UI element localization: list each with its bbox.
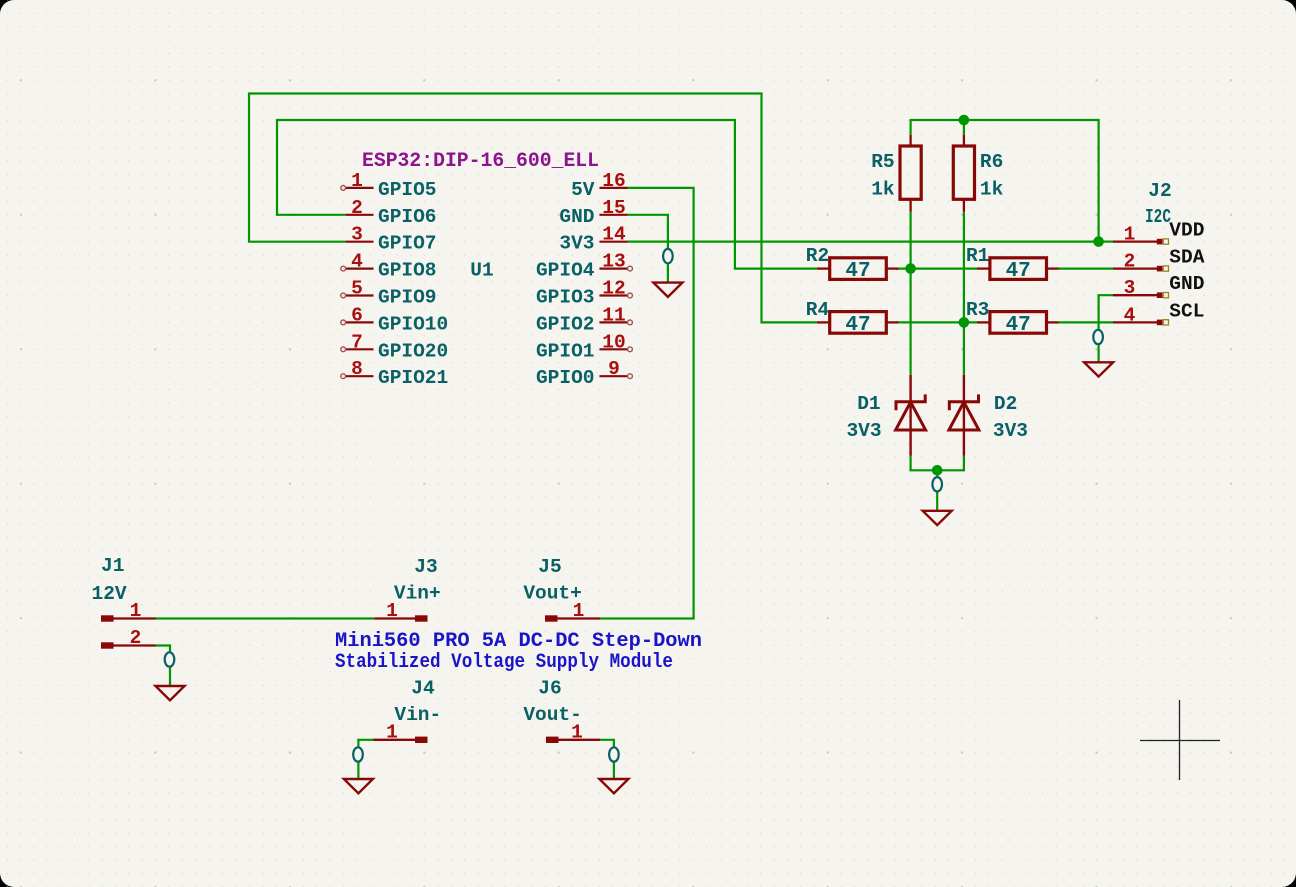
svg-text:4: 4 <box>1124 304 1136 326</box>
wire 3V3 (U1 pin 14) to J2 VDD - net VDD <box>628 241 1099 243</box>
wire J1 pin 1 to J3 Vin+ <box>156 617 375 619</box>
wire R4 to R3 - net SCL <box>896 321 977 323</box>
J2 pin 2 (SDA) <box>1113 251 1169 273</box>
junction R6 bottom / SCL <box>959 317 970 328</box>
U1 pin 1 (GPIO5) <box>341 170 437 201</box>
svg-text:J5: J5 <box>538 556 561 578</box>
ground symbol J6 net 0 <box>599 779 628 793</box>
svg-text:GND: GND <box>559 206 594 228</box>
connector J3 (Vin+) <box>374 556 440 622</box>
connector J4 (Vin-) <box>373 677 441 743</box>
svg-text:J1: J1 <box>101 555 124 577</box>
ground symbol U1 GND net 0 <box>653 283 682 297</box>
svg-text:4: 4 <box>351 251 363 273</box>
J6 pin 1 <box>546 721 600 743</box>
svg-text:GPIO7: GPIO7 <box>378 233 437 255</box>
U1 pin 4 (GPIO8) <box>341 251 437 282</box>
resistor R5 (1k) vertical <box>871 135 921 212</box>
svg-text:3V3: 3V3 <box>846 420 881 442</box>
U1 pin 13 (GPIO4) <box>536 251 632 282</box>
J1 pin 2 <box>101 627 156 649</box>
U1 pin 12 (GPIO3) <box>536 278 632 309</box>
connector J2 (I2C) <box>1113 180 1205 326</box>
wire GPIO7 (U1 pin 3) to R4 - net SCL <box>249 94 817 323</box>
svg-text:GPIO6: GPIO6 <box>378 206 437 228</box>
wire R5 bottom through SDA junction to D1 <box>909 212 911 375</box>
wire R2 to R1 - net SDA <box>896 268 977 270</box>
svg-text:J3: J3 <box>414 556 437 578</box>
svg-text:GPIO20: GPIO20 <box>378 340 448 362</box>
resistor R6 (1k) vertical <box>953 135 1003 212</box>
svg-text:47: 47 <box>1006 260 1031 283</box>
svg-text:3: 3 <box>1124 277 1136 299</box>
svg-text:SCL: SCL <box>1169 300 1204 322</box>
svg-text:3V3: 3V3 <box>993 420 1028 442</box>
svg-text:5: 5 <box>351 278 363 300</box>
svg-text:15: 15 <box>602 197 625 219</box>
J2 pin 3 (GND) <box>1113 277 1169 299</box>
wire R6 bottom through SCL junction to D2 <box>963 212 965 375</box>
J2 pin 4 (SCL) <box>1113 304 1169 326</box>
wire GPIO6 (U1 pin 2) to R2 - net SDA <box>277 120 817 269</box>
svg-text:1: 1 <box>573 600 585 622</box>
U1 pin 14 (3V3) <box>559 224 627 255</box>
wire VDD junction to J2 pin 1 <box>1099 241 1113 243</box>
wire D junction down to ground <box>936 470 938 511</box>
svg-text:1: 1 <box>386 600 398 622</box>
svg-text:13: 13 <box>602 251 625 273</box>
svg-text:1k: 1k <box>871 179 895 201</box>
wire J2 GND pin to ground <box>1099 295 1113 362</box>
ground symbol J1 net 0 <box>156 686 185 700</box>
wire R5/R6 tops to VDD <box>911 120 1099 242</box>
svg-text:9: 9 <box>608 358 620 380</box>
svg-text:3V3: 3V3 <box>559 233 594 255</box>
svg-text:GPIO9: GPIO9 <box>378 287 437 309</box>
junction D1/D2 ground net <box>932 465 943 476</box>
U1 pin 16 (5V) <box>571 170 627 201</box>
svg-text:6: 6 <box>351 304 363 326</box>
wire GND (U1 pin 15) to ground <box>628 215 668 283</box>
svg-text:R1: R1 <box>966 245 989 267</box>
svg-text:R3: R3 <box>966 299 989 321</box>
U1 pin 2 (GPIO6) <box>346 197 437 228</box>
svg-text:U1: U1 <box>470 260 493 282</box>
wire R1 to J2 SDA <box>1059 268 1114 270</box>
U1 pin 8 (GPIO21) <box>341 358 448 389</box>
svg-text:GPIO21: GPIO21 <box>378 367 448 389</box>
zener diode D2 (3V3) <box>949 375 1028 456</box>
svg-text:GPIO3: GPIO3 <box>536 287 595 309</box>
resistor R4 (47) horizontal <box>806 299 899 337</box>
svg-text:10: 10 <box>602 331 625 353</box>
junction R6 top / VDD wire <box>959 115 970 126</box>
svg-text:R5: R5 <box>871 151 894 173</box>
wire D1/D2 cathodes to ground net <box>911 456 964 471</box>
svg-text:5V: 5V <box>571 179 595 201</box>
wire J6 Vout- to ground <box>600 740 614 779</box>
svg-text:D1: D1 <box>857 393 880 415</box>
svg-text:R2: R2 <box>806 245 829 267</box>
cursor crosshair <box>1140 700 1220 780</box>
svg-text:8: 8 <box>351 358 363 380</box>
svg-text:GND: GND <box>1169 273 1204 295</box>
svg-text:Vin-: Vin- <box>394 704 441 726</box>
svg-text:1: 1 <box>386 721 398 743</box>
wire 5V (U1 pin 16) to J5 Vout+ <box>600 188 693 619</box>
power symbol 0 net label (J6) <box>609 747 619 761</box>
J4 pin 1 <box>373 721 427 743</box>
svg-text:J4: J4 <box>411 677 435 699</box>
U1 pin 7 (GPIO20) <box>341 331 448 362</box>
svg-text:D2: D2 <box>994 393 1017 415</box>
svg-text:Mini560 PRO 5A DC-DC Step-Down: Mini560 PRO 5A DC-DC Step-Down <box>335 630 702 653</box>
svg-text:1: 1 <box>351 170 363 192</box>
J5 pin 1 <box>545 600 600 622</box>
U1 pin 11 (GPIO2) <box>536 304 632 335</box>
resistor R1 (47) horizontal <box>966 245 1059 283</box>
svg-text:Stabilized Voltage Supply Modu: Stabilized Voltage Supply Module <box>335 651 673 674</box>
svg-text:SDA: SDA <box>1169 247 1204 269</box>
svg-text:1: 1 <box>1124 224 1136 246</box>
wire J4 Vin- to ground <box>358 740 373 779</box>
U1 pin 15 (GND) <box>559 197 627 228</box>
J3 pin 1 <box>374 600 427 622</box>
op-amp U1 ESP32 DIP-16 symbol <box>341 150 633 389</box>
svg-text:2: 2 <box>1124 251 1136 273</box>
power symbol 0 net label (J1) <box>165 652 175 666</box>
svg-text:GPIO8: GPIO8 <box>378 260 437 282</box>
svg-text:GPIO0: GPIO0 <box>536 367 595 389</box>
power symbol 0 net label (J4) <box>353 747 363 761</box>
U1 pin 3 (GPIO7) <box>346 224 437 255</box>
svg-text:J6: J6 <box>538 677 561 699</box>
svg-text:47: 47 <box>1006 314 1031 337</box>
junction R5 bottom / SDA <box>905 263 916 274</box>
ground symbol D1/D2 net 0 <box>923 511 952 525</box>
svg-text:11: 11 <box>602 304 625 326</box>
U1 pin 6 (GPIO10) <box>341 304 448 335</box>
svg-text:3: 3 <box>351 224 363 246</box>
svg-text:1: 1 <box>130 600 142 622</box>
svg-text:14: 14 <box>602 224 626 246</box>
J2 pin 1 (VDD) <box>1113 224 1169 246</box>
U1 pin 9 (GPIO0) <box>536 358 632 389</box>
svg-text:VDD: VDD <box>1169 220 1204 242</box>
svg-text:GPIO4: GPIO4 <box>536 260 595 282</box>
svg-text:47: 47 <box>845 260 870 283</box>
resistor R2 (47) horizontal <box>806 245 899 283</box>
svg-text:12: 12 <box>602 278 625 300</box>
zener diode D1 (3V3) <box>846 375 925 456</box>
svg-text:ESP32:DIP-16_600_ELL: ESP32:DIP-16_600_ELL <box>362 150 599 173</box>
resistor R3 (47) horizontal <box>966 299 1059 337</box>
svg-text:J2: J2 <box>1148 180 1171 202</box>
svg-text:R4: R4 <box>806 299 830 321</box>
power symbol 0 net label (U1 GND) <box>663 249 673 263</box>
connector J5 (Vout+) <box>523 556 600 622</box>
U1 pin 10 (GPIO1) <box>536 331 632 362</box>
wire J1 pin 2 to ground <box>156 646 171 687</box>
svg-text:GPIO5: GPIO5 <box>378 179 437 201</box>
wire R6 top stub <box>963 119 965 135</box>
svg-text:7: 7 <box>351 331 363 353</box>
power symbol 0 net label (J2 GND) <box>1093 330 1103 344</box>
ground symbol J2 GND net 0 <box>1084 362 1113 376</box>
junction VDD at J2 pin 1 <box>1093 236 1104 247</box>
svg-text:16: 16 <box>602 170 625 192</box>
power symbol 0 net label (D1/D2) <box>932 477 942 491</box>
svg-text:GPIO2: GPIO2 <box>536 313 595 335</box>
connector J6 (Vout-) <box>523 677 600 743</box>
J1 pin 1 <box>101 600 156 622</box>
svg-text:Vin+: Vin+ <box>394 583 441 605</box>
connector J1 (12V) <box>92 555 156 649</box>
svg-text:1: 1 <box>571 721 583 743</box>
svg-text:2: 2 <box>351 197 363 219</box>
svg-text:2: 2 <box>130 627 142 649</box>
svg-text:GPIO1: GPIO1 <box>536 340 595 362</box>
svg-text:GPIO10: GPIO10 <box>378 313 448 335</box>
wire R5 top stub <box>909 119 911 135</box>
U1 pin 5 (GPIO9) <box>341 278 437 309</box>
svg-text:R6: R6 <box>980 151 1003 173</box>
svg-text:12V: 12V <box>92 583 127 605</box>
ground symbol J4 net 0 <box>344 779 373 793</box>
wire R3 to J2 SCL <box>1059 321 1114 323</box>
svg-text:I2C: I2C <box>1145 206 1171 228</box>
svg-text:47: 47 <box>845 314 870 337</box>
svg-text:1k: 1k <box>980 179 1004 201</box>
